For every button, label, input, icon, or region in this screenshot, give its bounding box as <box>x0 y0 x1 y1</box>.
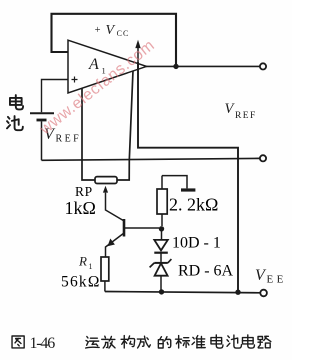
rail: common (battery minus to output common terminal) <box>42 158 260 160</box>
feedback wire from output to inverting input <box>52 14 177 67</box>
svg-text:2. 2kΩ: 2. 2kΩ <box>169 195 218 215</box>
svg-text:A: A <box>88 56 99 73</box>
potentiometer wiper arrow <box>103 186 124 221</box>
transistor emitter arrow <box>108 239 115 247</box>
svg-text:EE: EE <box>267 274 287 286</box>
zener diode RD-6A <box>150 259 172 292</box>
diode 10D-1 <box>154 240 168 262</box>
label A1 <box>88 56 106 76</box>
wire: noninverting input to battery <box>42 80 68 113</box>
rail: VEE <box>105 292 260 293</box>
svg-text:CC: CC <box>117 29 130 38</box>
svg-text:1: 1 <box>89 262 93 271</box>
terminal: VREF output <box>260 63 266 69</box>
battery (standard cell) <box>30 113 54 160</box>
terminal: common output <box>260 155 266 161</box>
svg-text:1kΩ: 1kΩ <box>65 198 96 218</box>
wire: op-amp null pin to RP left end <box>82 88 95 180</box>
label 电池 (battery) <box>7 95 23 130</box>
op-amp A1 <box>68 40 147 93</box>
label VEE <box>255 267 287 286</box>
node: diode/VEE rail junction <box>159 289 164 294</box>
svg-text:10D - 1: 10D - 1 <box>172 235 221 252</box>
svg-text:V: V <box>255 267 267 284</box>
svg-text:REF: REF <box>235 111 257 121</box>
label VREF (output) <box>225 101 257 121</box>
potentiometer RP <box>95 177 117 184</box>
svg-text:+: + <box>95 25 101 36</box>
svg-text:56kΩ: 56kΩ <box>61 274 101 291</box>
label +VCC <box>95 23 130 38</box>
node: output/feedback junction <box>173 64 178 69</box>
svg-text:REF: REF <box>56 134 82 145</box>
node: op-amp VEE wire junction <box>235 290 240 295</box>
wire: junction to diode <box>161 229 163 240</box>
svg-text:V: V <box>106 23 116 38</box>
label VREF (battery) <box>44 126 81 145</box>
svg-text:R: R <box>78 253 87 268</box>
terminal: VEE <box>260 290 267 297</box>
svg-text:RP: RP <box>75 184 93 199</box>
wire: op-amp VEE pin to VEE rail <box>138 62 238 292</box>
resistor 2.2k <box>157 176 167 226</box>
caption 图1-46 运放构成的标准电池电路 <box>12 335 271 348</box>
svg-text:1-46: 1-46 <box>30 335 56 352</box>
resistor R1 <box>101 257 109 292</box>
ground <box>162 176 195 190</box>
+VCC supply arrow <box>135 40 140 68</box>
node: base/2.2k/diode junction <box>159 226 164 231</box>
op-amp + input marker <box>72 77 78 83</box>
label R1 <box>78 253 93 271</box>
wire: op-amp null pin 2 to RP right end <box>117 71 133 180</box>
svg-text:V: V <box>225 101 236 117</box>
transistor Q1 <box>106 219 160 257</box>
output wire to VREF terminal <box>146 65 260 67</box>
svg-text:RD - 6A: RD - 6A <box>178 263 234 280</box>
